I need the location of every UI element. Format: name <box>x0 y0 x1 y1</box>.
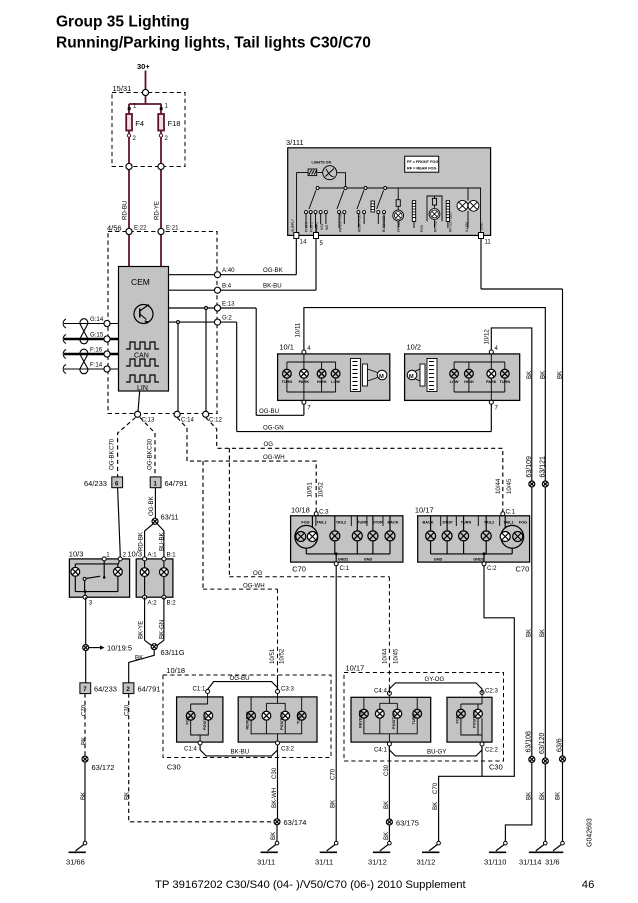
svg-text:POSITION: POSITION <box>280 712 284 730</box>
svg-text:31/6: 31/6 <box>545 858 560 867</box>
svg-text:30+: 30+ <box>137 62 150 71</box>
svg-text:BK-WH: BK-WH <box>271 788 278 808</box>
svg-text:10/3: 10/3 <box>69 550 84 559</box>
svg-text:31/12: 31/12 <box>368 858 387 867</box>
svg-text:RF = REAR FOG: RF = REAR FOG <box>407 167 436 171</box>
svg-text:C70: C70 <box>108 438 115 450</box>
svg-text:REVERSE: REVERSE <box>246 711 250 730</box>
svg-text:10/44: 10/44 <box>495 478 502 494</box>
svg-text:OG-BU: OG-BU <box>230 675 250 682</box>
svg-text:C:14: C:14 <box>181 417 194 424</box>
svg-text:TURN: TURN <box>297 713 301 724</box>
svg-text:10/17: 10/17 <box>415 506 434 515</box>
svg-text:FF = FRONT FOG: FF = FRONT FOG <box>407 160 438 164</box>
svg-text:C30: C30 <box>489 763 503 772</box>
svg-text:TURN: TURN <box>357 521 368 525</box>
svg-text:FOG: FOG <box>185 716 189 724</box>
svg-text:14: 14 <box>300 240 307 246</box>
svg-text:RD-BU: RD-BU <box>122 201 129 220</box>
svg-text:64/233: 64/233 <box>94 685 117 694</box>
svg-text:B:2: B:2 <box>167 600 177 607</box>
svg-text:BK: BK <box>526 371 533 379</box>
svg-text:GY-OG: GY-OG <box>425 676 445 683</box>
svg-text:63/109: 63/109 <box>526 456 533 478</box>
svg-text:BACK: BACK <box>388 521 399 525</box>
svg-text:BK-BU: BK-BU <box>263 283 282 290</box>
svg-text:10/17: 10/17 <box>346 664 365 673</box>
svg-text:46: 46 <box>582 879 595 891</box>
svg-text:FOG: FOG <box>519 521 527 525</box>
svg-text:RF IND: RF IND <box>434 220 438 232</box>
svg-text:31/110: 31/110 <box>484 858 506 867</box>
svg-text:10/18: 10/18 <box>166 666 185 675</box>
svg-text:M: M <box>409 374 414 380</box>
svg-text:POSITION: POSITION <box>473 710 477 728</box>
svg-text:TURN: TURN <box>500 380 511 384</box>
svg-text:STOP: STOP <box>442 521 453 525</box>
svg-text:BK: BK <box>540 371 547 379</box>
svg-text:C30: C30 <box>146 438 153 450</box>
svg-text:BK: BK <box>80 792 87 800</box>
svg-text:10/2: 10/2 <box>407 343 422 352</box>
svg-text:PARK: PARK <box>299 380 310 384</box>
svg-text:TAIL1: TAIL1 <box>503 521 513 525</box>
svg-text:10/12: 10/12 <box>484 329 491 345</box>
svg-text:BK: BK <box>123 792 130 800</box>
svg-text:BK: BK <box>330 800 337 808</box>
svg-text:LOW: LOW <box>331 380 340 384</box>
svg-text:C3:2: C3:2 <box>281 746 294 753</box>
svg-text:Running/Parking lights, Tail l: Running/Parking lights, Tail lights C30/… <box>56 35 371 52</box>
svg-text:A:1: A:1 <box>148 552 158 559</box>
svg-text:10/51: 10/51 <box>269 648 276 664</box>
svg-text:BK: BK <box>555 792 562 800</box>
svg-text:STOP: STOP <box>372 521 383 525</box>
svg-text:10/45: 10/45 <box>393 648 400 664</box>
svg-text:10/18: 10/18 <box>291 506 310 515</box>
svg-text:BULB LED: BULB LED <box>382 215 386 232</box>
svg-text:C2:3: C2:3 <box>485 688 498 695</box>
svg-text:A:40: A:40 <box>222 267 235 274</box>
svg-text:GND2: GND2 <box>473 558 484 562</box>
svg-text:E:22: E:22 <box>134 225 147 232</box>
svg-text:C3:3: C3:3 <box>281 686 294 693</box>
svg-text:63/120: 63/120 <box>539 732 546 754</box>
svg-text:BACK: BACK <box>423 521 434 525</box>
svg-text:TAIL2: TAIL2 <box>336 521 346 525</box>
svg-text:RD-YE: RD-YE <box>154 201 161 220</box>
svg-text:C1:1: C1:1 <box>193 686 206 693</box>
svg-text:1: 1 <box>106 552 110 559</box>
svg-text:11: 11 <box>485 240 492 246</box>
svg-text:64/791: 64/791 <box>138 685 161 694</box>
svg-text:BK: BK <box>539 629 546 637</box>
svg-text:TURN: TURN <box>282 380 293 384</box>
svg-text:63/6: 63/6 <box>556 738 563 752</box>
svg-text:31/11: 31/11 <box>315 858 333 867</box>
svg-text:C1:4: C1:4 <box>184 746 197 753</box>
svg-text:G:14: G:14 <box>90 316 104 323</box>
svg-text:31/11: 31/11 <box>257 858 275 867</box>
svg-text:FRONT FOG: FRONT FOG <box>338 212 342 232</box>
svg-text:BK: BK <box>270 832 277 840</box>
svg-text:63/11G: 63/11G <box>161 648 185 657</box>
svg-text:C:3: C:3 <box>319 509 329 516</box>
svg-text:OG-WH: OG-WH <box>263 454 285 461</box>
svg-text:C30: C30 <box>123 704 130 716</box>
svg-text:RF LGT LED: RF LGT LED <box>449 212 453 232</box>
svg-text:OG-BK: OG-BK <box>146 450 153 470</box>
svg-text:BK-BU: BK-BU <box>231 748 250 755</box>
svg-text:BK: BK <box>81 737 88 745</box>
svg-text:OG-BK: OG-BK <box>148 496 155 516</box>
svg-text:C4:4: C4:4 <box>374 688 387 695</box>
svg-text:LIN: LIN <box>137 385 148 392</box>
svg-text:G042693: G042693 <box>587 818 594 847</box>
svg-text:BK: BK <box>383 801 390 809</box>
svg-text:M: M <box>379 374 384 380</box>
svg-text:LIGHTS ON: LIGHTS ON <box>312 160 332 164</box>
svg-text:BU-GY: BU-GY <box>427 748 446 755</box>
svg-text:SUPPLY: SUPPLY <box>291 218 295 232</box>
svg-text:A:2: A:2 <box>148 600 158 607</box>
svg-text:HIGH: HIGH <box>317 380 327 384</box>
svg-text:BK: BK <box>525 792 532 800</box>
svg-text:OG-WH: OG-WH <box>243 582 265 589</box>
svg-text:10/44: 10/44 <box>382 648 389 664</box>
svg-text:OG-BU: OG-BU <box>259 408 279 415</box>
svg-text:GND2: GND2 <box>338 558 349 562</box>
svg-text:10/52: 10/52 <box>318 482 325 498</box>
svg-text:FOG: FOG <box>301 521 309 525</box>
svg-text:10/52: 10/52 <box>279 648 286 664</box>
svg-text:B:1: B:1 <box>167 552 177 559</box>
svg-text:BK: BK <box>383 832 390 840</box>
svg-text:F18: F18 <box>168 119 181 128</box>
svg-text:BK: BK <box>539 792 546 800</box>
svg-text:31/12: 31/12 <box>417 858 436 867</box>
svg-text:31/66: 31/66 <box>66 858 85 867</box>
svg-text:GND: GND <box>479 222 483 230</box>
svg-text:FF IND: FF IND <box>397 221 401 232</box>
svg-text:BK: BK <box>557 371 564 379</box>
svg-text:3/111: 3/111 <box>286 138 304 147</box>
svg-text:10/19:5: 10/19:5 <box>107 644 132 653</box>
svg-text:C:1: C:1 <box>340 565 350 572</box>
svg-text:BK-GN: BK-GN <box>158 620 165 639</box>
svg-text:C:1: C:1 <box>506 509 516 516</box>
svg-text:TURN: TURN <box>461 521 472 525</box>
svg-text:63/175: 63/175 <box>396 819 419 828</box>
svg-text:POS 1: POS 1 <box>309 222 313 232</box>
svg-text:POS 2: POS 2 <box>315 222 319 232</box>
svg-text:64/791: 64/791 <box>165 479 188 488</box>
svg-text:NSL: NSL <box>320 223 324 230</box>
svg-text:10/45: 10/45 <box>506 478 513 494</box>
svg-text:64/233: 64/233 <box>84 479 107 488</box>
svg-text:LOW: LOW <box>450 380 459 384</box>
svg-text:BK-YE: BK-YE <box>137 621 144 639</box>
svg-text:OG: OG <box>253 570 263 577</box>
svg-text:OG: OG <box>264 441 274 448</box>
svg-text:RD-BK: RD-BK <box>137 532 144 551</box>
svg-text:C2:2: C2:2 <box>485 747 498 754</box>
svg-text:PARK: PARK <box>486 380 497 384</box>
svg-text:OG-BK: OG-BK <box>108 450 115 470</box>
svg-text:C70: C70 <box>330 768 337 780</box>
svg-text:63/172: 63/172 <box>92 763 115 772</box>
svg-text:REVERSE: REVERSE <box>359 709 363 728</box>
svg-text:G:15: G:15 <box>90 332 104 339</box>
svg-text:BK: BK <box>432 802 439 810</box>
svg-text:POSITION: POSITION <box>392 711 396 729</box>
svg-text:E:21: E:21 <box>166 225 179 232</box>
svg-text:F4: F4 <box>135 119 144 128</box>
svg-text:TAIL2: TAIL2 <box>484 521 494 525</box>
svg-text:NO: NO <box>325 225 329 230</box>
svg-text:63/108: 63/108 <box>526 731 533 753</box>
svg-text:Group 35 Lighting: Group 35 Lighting <box>56 14 189 31</box>
svg-text:OG-BK: OG-BK <box>263 267 283 274</box>
svg-text:63/174: 63/174 <box>284 818 307 827</box>
svg-text:GND: GND <box>434 558 443 562</box>
svg-text:G:2: G:2 <box>222 315 232 322</box>
svg-text:31/114: 31/114 <box>519 858 541 867</box>
svg-text:BK: BK <box>135 655 143 662</box>
svg-text:FOG: FOG <box>456 715 460 723</box>
svg-text:10/3: 10/3 <box>127 550 142 559</box>
svg-text:10/1: 10/1 <box>279 343 294 352</box>
svg-text:10/51: 10/51 <box>307 482 314 498</box>
svg-text:C70: C70 <box>432 782 439 794</box>
svg-text:C70: C70 <box>81 704 88 716</box>
svg-text:B:4: B:4 <box>222 283 232 290</box>
svg-text:E:13: E:13 <box>222 301 235 308</box>
svg-text:10/11: 10/11 <box>295 322 302 337</box>
svg-text:GND: GND <box>364 558 373 562</box>
svg-text:BU-BK: BU-BK <box>158 532 165 551</box>
svg-text:HIGH: HIGH <box>464 380 474 384</box>
svg-text:TAIL1: TAIL1 <box>316 521 326 525</box>
svg-text:C:13: C:13 <box>142 417 155 424</box>
svg-text:C30: C30 <box>271 767 278 779</box>
svg-text:C30: C30 <box>167 763 181 772</box>
svg-text:TP 39167202 C30/S40 (04- )/V50: TP 39167202 C30/S40 (04- )/V50/C70 (06-)… <box>155 879 467 891</box>
svg-text:F:14: F:14 <box>90 362 103 369</box>
svg-text:POS 0: POS 0 <box>305 222 309 232</box>
svg-text:REAR FOG: REAR FOG <box>358 214 362 232</box>
svg-text:63/121: 63/121 <box>540 456 547 478</box>
svg-text:C:2: C:2 <box>487 565 497 572</box>
svg-text:63/11: 63/11 <box>161 513 179 522</box>
svg-text:F:16: F:16 <box>90 347 103 354</box>
svg-text:ILLUM: ILLUM <box>465 222 469 232</box>
svg-text:OG-GN: OG-GN <box>263 425 284 432</box>
svg-text:C30: C30 <box>383 764 390 776</box>
svg-text:C70: C70 <box>292 565 306 574</box>
svg-text:TURN: TURN <box>412 714 416 725</box>
svg-text:CEM: CEM <box>131 277 150 287</box>
svg-text:C70: C70 <box>516 565 530 574</box>
svg-text:POS: POS <box>420 224 424 232</box>
svg-text:15/31: 15/31 <box>113 84 132 93</box>
svg-text:C4:1: C4:1 <box>374 747 387 754</box>
svg-text:POSITION: POSITION <box>203 712 207 730</box>
svg-text:BK: BK <box>525 629 532 637</box>
